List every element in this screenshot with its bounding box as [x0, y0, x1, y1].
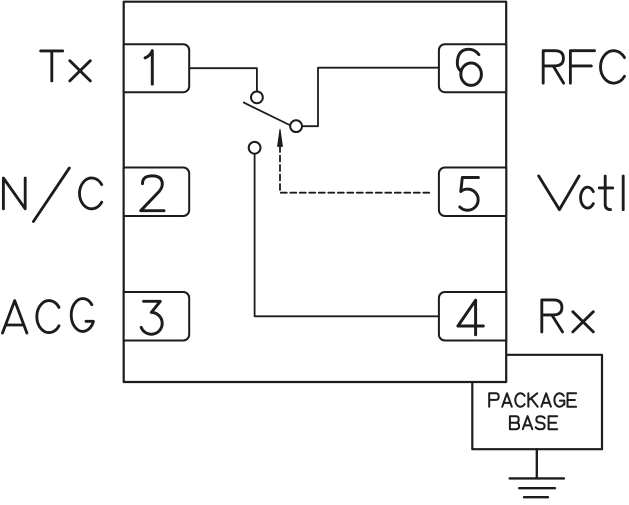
package base box [472, 355, 602, 449]
dashed control line from pin 5 [280, 146, 431, 193]
text BASE [510, 416, 557, 429]
pin number 2 [141, 176, 164, 211]
text PACKAGE [489, 393, 576, 406]
pin 6 box [439, 44, 506, 92]
wire pole to pin 6 [302, 68, 439, 127]
pin number 5 [460, 178, 479, 211]
label Tx (pin 1) [41, 51, 91, 81]
switch pole contact circle (RFC side) [290, 120, 302, 132]
wire pin1 to switch throw 1 [189, 68, 257, 91]
label Vctl (pin 5) [539, 176, 624, 210]
pin 4 box [439, 292, 506, 341]
label N/C (pin 2) [3, 168, 101, 221]
pin number 1 [145, 51, 152, 85]
pin number 3 [141, 301, 162, 334]
switch blade [244, 103, 290, 125]
label Rx (pin 4) [542, 300, 594, 332]
switch throw contact circle (Tx side) [251, 92, 263, 104]
pin 3 box [124, 292, 190, 341]
ground [510, 449, 564, 497]
pin number 4 [458, 300, 483, 335]
pin 5 box [439, 168, 506, 217]
wire throw 2 to pin 4 [255, 154, 439, 316]
label RFC (pin 6) [543, 51, 624, 83]
switch throw contact circle (Rx side) [249, 142, 261, 154]
pin number 6 [457, 49, 479, 70]
label ACG (pin 3) [3, 299, 94, 333]
package outline U1 [124, 2, 507, 382]
pin 2 box [124, 168, 190, 217]
pin 1 box [124, 44, 190, 92]
control arrowhead [278, 129, 283, 146]
